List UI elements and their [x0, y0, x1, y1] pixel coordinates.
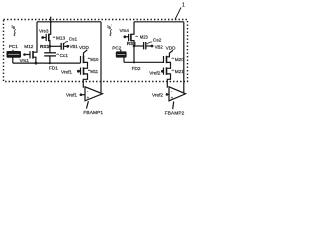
- svg-text:PC1: PC1: [9, 44, 19, 49]
- svg-text:VB1: VB1: [70, 44, 79, 49]
- svg-text:FBAMP2: FBAMP2: [165, 110, 185, 116]
- svg-text:Vrs4: Vrs4: [120, 28, 130, 33]
- svg-text:FD2: FD2: [132, 66, 141, 71]
- svg-text:Vrs1: Vrs1: [20, 58, 30, 63]
- svg-text:VDD: VDD: [166, 45, 177, 50]
- svg-text:Vrs3: Vrs3: [39, 28, 49, 33]
- svg-text:FBAMP1: FBAMP1: [83, 110, 103, 116]
- svg-text:M13: M13: [56, 36, 66, 41]
- svg-text:FD1: FD1: [49, 66, 58, 71]
- svg-text:M11: M11: [90, 69, 98, 74]
- svg-text:M20: M20: [175, 57, 185, 62]
- svg-text:Vref2: Vref2: [152, 93, 163, 98]
- svg-text:Vref2: Vref2: [149, 71, 160, 76]
- svg-text:RS1: RS1: [40, 44, 50, 49]
- svg-text:M23: M23: [140, 34, 149, 39]
- svg-text:M12: M12: [24, 44, 34, 49]
- svg-text:RS2: RS2: [127, 41, 137, 46]
- svg-text:Cs1: Cs1: [69, 37, 78, 42]
- svg-text:Vref1: Vref1: [66, 92, 77, 97]
- svg-text:Cs2: Cs2: [153, 38, 162, 43]
- svg-text:1: 1: [182, 3, 185, 9]
- svg-text:VDD: VDD: [79, 45, 90, 50]
- svg-text:M10: M10: [90, 57, 99, 62]
- svg-text:Cc1: Cc1: [60, 53, 69, 58]
- svg-text:M21: M21: [175, 69, 185, 74]
- svg-text:Vref1: Vref1: [61, 70, 72, 75]
- svg-text:PC2: PC2: [112, 46, 122, 51]
- svg-text:VB2: VB2: [155, 45, 164, 50]
